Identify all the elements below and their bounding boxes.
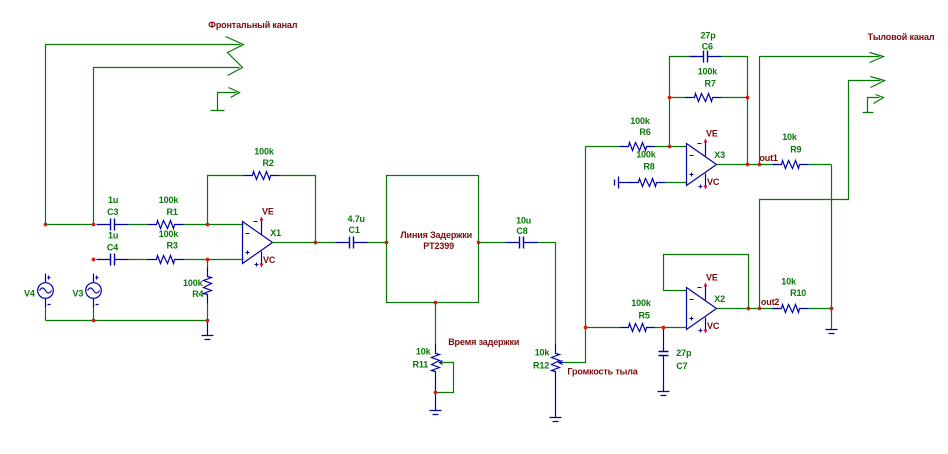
svg-text:out2: out2 <box>761 297 780 307</box>
wire: R5 to X2 non-inverting input <box>655 327 687 329</box>
svg-text:X2: X2 <box>714 294 725 304</box>
svg-text:100k: 100k <box>630 116 651 126</box>
wire: V4 bottom lead to ground bus <box>45 308 47 321</box>
svg-text:R9: R9 <box>790 145 801 155</box>
svg-text:out1: out1 <box>759 153 778 163</box>
potentiometer R12 <box>552 345 560 381</box>
resistor R2 <box>244 172 280 180</box>
svg-text:R1: R1 <box>167 207 178 217</box>
wire: C1 to delay box <box>368 242 387 244</box>
junction dots group 1 <box>44 223 389 323</box>
svg-text:C3: C3 <box>107 207 118 217</box>
svg-text:27p: 27p <box>701 31 717 41</box>
wire: input line 1 (V4 to C3) <box>46 224 96 226</box>
svg-text:R4: R4 <box>192 289 203 299</box>
capacitor C7 <box>663 328 665 352</box>
svg-text:100k: 100k <box>159 229 180 239</box>
svg-text:C6: C6 <box>702 42 713 52</box>
svg-text:Время задержки: Время задержки <box>448 337 519 347</box>
wire: R2 feedback left vertical <box>208 176 245 225</box>
wire: bus corner to R6 <box>586 146 620 148</box>
wire: R12 wiper to R5/R6 bus <box>562 147 586 363</box>
svg-text:Фронтальный канал: Фронтальный канал <box>208 20 297 30</box>
ground: front connector shield bar <box>211 110 225 112</box>
resistor R10 <box>773 305 809 313</box>
svg-text:1u: 1u <box>108 195 118 205</box>
wire: R4 bottom to ground bus <box>207 304 209 321</box>
svg-text:PT2399: PT2399 <box>423 241 454 251</box>
ground: below C7 <box>658 392 670 396</box>
svg-text:VE: VE <box>706 273 718 283</box>
wire: rear connector ground stub <box>868 98 880 113</box>
potentiometer R11 wiper arrow <box>440 361 443 365</box>
capacitor C8 <box>506 237 538 249</box>
ground: below R11 <box>430 411 442 415</box>
svg-text:R6: R6 <box>639 127 650 137</box>
wire: ground bus <box>46 320 208 322</box>
connector front pin 1 arrow <box>226 37 244 76</box>
resistor R7 <box>686 94 722 102</box>
capacitor C3 <box>97 219 129 231</box>
wire: X3 feedback left vertical <box>670 57 697 147</box>
svg-text:Тыловой канал: Тыловой канал <box>868 32 935 42</box>
wire: delay box bottom pin down to R11 <box>435 303 437 345</box>
wire: R11 bottom to ground <box>435 381 437 411</box>
resistor R3 <box>148 256 184 264</box>
wire: R7 branch right <box>722 97 748 99</box>
svg-text:10k: 10k <box>782 132 798 142</box>
ground: below R12 <box>550 418 562 422</box>
svg-text:100k: 100k <box>636 150 657 160</box>
capacitor C4 <box>97 254 129 266</box>
potentiometer R11 <box>432 345 440 381</box>
svg-text:Линия Задержки: Линия Задержки <box>400 230 472 240</box>
svg-text:R3: R3 <box>167 241 178 251</box>
delay line box U1 PT2399 <box>387 176 479 303</box>
ground: main ground below bus <box>207 321 209 336</box>
svg-text:VC: VC <box>263 255 276 265</box>
svg-text:Громкость тыла: Громкость тыла <box>567 367 638 377</box>
svg-text:1u: 1u <box>108 231 118 241</box>
svg-text:100k: 100k <box>254 146 275 156</box>
junction dots group 2 <box>434 96 834 395</box>
svg-text:R8: R8 <box>643 161 654 171</box>
connector rear ground pin arrow <box>874 95 884 104</box>
wire: V3 vertical to front connector pin 2 <box>94 68 240 225</box>
resistor R9 <box>773 161 809 169</box>
wire: R11 wiper bracket to bottom terminal <box>436 363 454 393</box>
svg-text:100k: 100k <box>631 298 652 308</box>
svg-text:10k: 10k <box>535 348 551 358</box>
svg-text:100k: 100k <box>159 195 180 205</box>
svg-text:R7: R7 <box>705 78 716 88</box>
source V3 <box>86 274 102 308</box>
svg-text:VC: VC <box>707 177 720 187</box>
svg-text:100k: 100k <box>698 66 719 76</box>
svg-text:C4: C4 <box>107 242 118 252</box>
wire: X3 output to R9 <box>717 164 780 166</box>
svg-text:4.7u: 4.7u <box>348 214 365 224</box>
wire: R1 to X1 inverting input <box>184 224 244 226</box>
resistor R5 <box>620 324 656 332</box>
wire: front connector ground stub <box>218 93 237 111</box>
svg-text:C7: C7 <box>676 361 687 371</box>
wire: input line 2 (V3 to C4) <box>94 259 96 261</box>
wire: X2 feedback loop <box>664 255 749 309</box>
capacitor C6 <box>690 51 722 63</box>
svg-text:C1: C1 <box>349 225 360 235</box>
svg-text:VC: VC <box>707 321 720 331</box>
wire: X1 output to C1 <box>273 242 336 244</box>
source V4 <box>38 274 54 308</box>
wire: R3 to X1 non-inverting input <box>184 259 244 261</box>
wire: R12 bottom to ground <box>555 381 557 418</box>
connector front ground pin arrow <box>229 88 240 98</box>
wire: V3 bottom lead to ground bus <box>93 308 95 321</box>
ground: rear connector shield bar <box>863 112 874 114</box>
op-amp X1 <box>243 207 282 268</box>
wire: R7 branch left <box>670 97 687 99</box>
svg-text:R2: R2 <box>263 158 274 168</box>
op-amp X2 <box>687 273 726 334</box>
ground: sideways ground at R8 left <box>615 177 619 189</box>
resistor R6 <box>620 143 656 151</box>
svg-text:C8: C8 <box>516 226 527 236</box>
wire: C7 to ground <box>663 356 665 392</box>
wire: R6 to X3 inverting input <box>655 146 687 148</box>
svg-text:VE: VE <box>262 207 274 217</box>
svg-text:10k: 10k <box>781 277 797 287</box>
svg-text:VE: VE <box>706 129 718 139</box>
wire: R2 right to X1 output <box>280 176 316 243</box>
wire: out2 to rear connector pin 2 <box>760 81 881 309</box>
svg-text:R11: R11 <box>413 360 429 370</box>
capacitor C1 <box>336 237 368 249</box>
wire: X2 output to R10 <box>717 308 780 310</box>
op-amp X3 <box>687 129 726 190</box>
potentiometer R12 wiper arrow <box>559 361 564 365</box>
wire: C6 right to feedback right vertical <box>722 57 748 165</box>
wire: R8 to X3 non-inverting input <box>666 182 688 184</box>
wire: R9/R10 ground column <box>831 165 833 330</box>
svg-text:V4: V4 <box>24 288 35 298</box>
svg-text:10u: 10u <box>516 216 531 226</box>
wire: R10 right to ground column <box>809 308 832 310</box>
svg-text:R5: R5 <box>639 310 650 320</box>
wire: C4 to R3 <box>129 259 149 261</box>
ground: right output divider ground <box>826 330 838 334</box>
svg-text:V3: V3 <box>73 288 84 298</box>
wire: C3 to R1 <box>129 224 149 226</box>
svg-text:100k: 100k <box>183 278 204 288</box>
svg-text:10k: 10k <box>416 347 432 357</box>
wire: out1 to rear connector pin 1 <box>760 57 880 165</box>
svg-text:27p: 27p <box>676 348 692 358</box>
wire: R9 right down to ground column <box>809 164 832 166</box>
svg-text:X1: X1 <box>270 228 281 238</box>
wire: C8 down to R12 <box>538 243 556 345</box>
resistor R8 <box>619 182 631 184</box>
wire: V4 vertical to front connector pin 1 <box>46 45 241 225</box>
svg-text:R10: R10 <box>790 288 806 298</box>
svg-text:R12: R12 <box>533 361 549 371</box>
wire: bus to R5 <box>586 327 620 329</box>
wire: delay box output to C8 <box>479 242 506 244</box>
connector rear pin 2 arrow <box>871 77 885 88</box>
connector rear pin 1 arrow <box>870 53 884 63</box>
resistor R1 <box>148 221 184 229</box>
svg-text:X3: X3 <box>714 150 725 160</box>
resistor R4 <box>207 260 209 268</box>
